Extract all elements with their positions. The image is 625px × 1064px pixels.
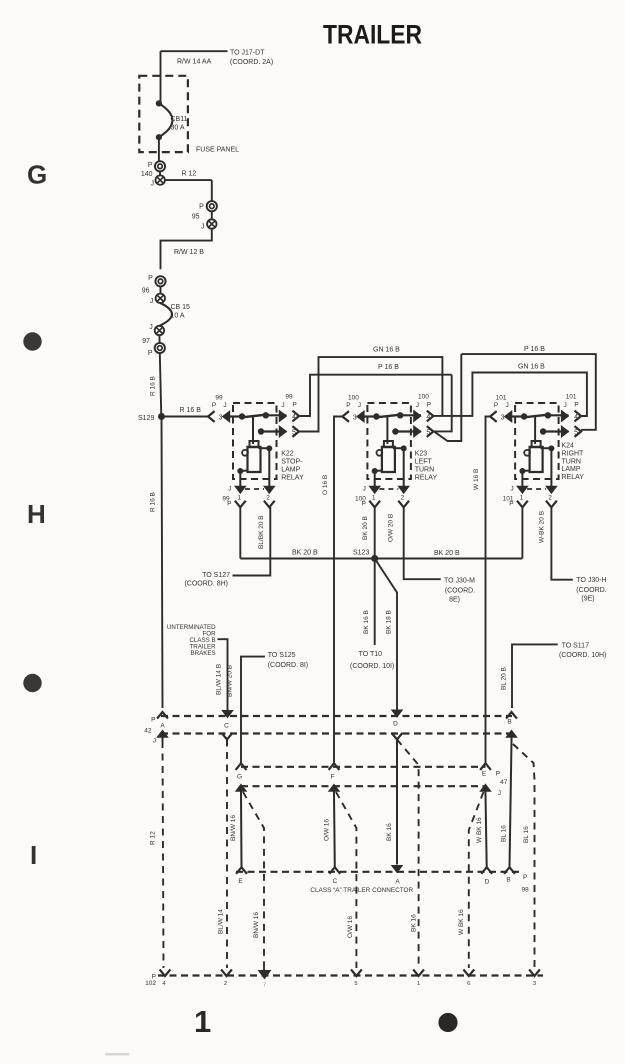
svg-text:R/W 14 AA: R/W 14 AA [177,59,212,66]
svg-text:BL/W 14: BL/W 14 [218,909,225,934]
svg-text:R 16 B: R 16 B [150,376,157,396]
svg-text:P: P [346,402,350,409]
connector 42 pin A arrow (J) [157,730,168,737]
svg-text:101: 101 [566,394,577,401]
svg-text:P: P [574,402,578,409]
relay K22 dashed case [233,403,277,479]
svg-text:J: J [510,486,513,493]
connector 101 pin 5 arrow (J) [561,426,568,437]
relay K22 coil terminal dots [259,447,270,449]
connector 47 pin F fork (P) [329,763,340,770]
relay K23 coil terminal dots [393,447,404,449]
svg-text:GN 16 B: GN 16 B [373,347,400,354]
splice S129 [158,413,165,420]
relay K24 switch contacts [521,413,527,419]
svg-text:RELAY: RELAY [562,474,585,481]
svg-text:30 A: 30 A [171,124,185,131]
svg-text:E: E [482,771,487,778]
connector 99 body dashed link [245,488,264,490]
wire BK 18 B from S123 to connector 42-D [375,559,397,711]
svg-text:2: 2 [548,495,552,502]
wire from K23 pin 1 to S123 [374,507,376,558]
svg-text:95: 95 [192,213,200,220]
connector 47 pin E fork (P) [480,763,491,770]
connector 100 pin 3 arrow (J) [357,411,364,422]
svg-text:TRAILER: TRAILER [323,20,422,50]
relay K24 coil [532,441,541,447]
svg-text:J: J [153,738,156,745]
wire W-BK 16 dashed from 47-E to 102-6 [469,792,484,968]
svg-text:1: 1 [237,495,241,502]
wire BL/BK 20 B from K22 pin 1 [239,507,241,558]
svg-text:K23: K23 [415,451,428,458]
svg-text:GN 16 B: GN 16 B [518,364,545,371]
svg-text:BL 20 B: BL 20 B [501,667,508,690]
connector 96 J half [160,287,162,294]
svg-text:R/W 12 B: R/W 12 B [174,249,204,256]
svg-text:TO J30-H: TO J30-H [576,577,606,584]
svg-text:(COORD.: (COORD. [445,587,475,594]
svg-text:J: J [149,324,153,331]
wire R 12 from 42-A to 102-4 [163,741,164,968]
relay K23 coil feed wire [386,417,388,445]
connector 102 pin 7 arrow [259,971,271,979]
connector 101 body dashed link [527,488,546,490]
connector 99 pin 4 arrow (J) [279,411,286,422]
relay K23 coil [384,441,393,447]
connector 100 pin 2 fork (P) [398,501,409,508]
wire BK 20 B to S127 [233,507,271,575]
connector 101 pin 3 arrow (J) [505,411,512,422]
wire W 16 B from K24 pin 3 [486,417,491,764]
svg-text:42: 42 [144,728,152,735]
grid marker dot [23,674,41,692]
svg-text:47: 47 [500,779,508,786]
svg-text:P: P [148,162,153,169]
svg-text:B: B [506,877,510,884]
svg-text:STOP-: STOP- [281,459,303,466]
connector 42 pin C fork (J) [222,733,233,740]
svg-text:R 12: R 12 [182,171,197,178]
class A pin A arrow [392,866,403,873]
svg-text:P: P [151,717,155,724]
connector 99 pin 5 arrow (J) [279,426,286,437]
svg-text:LAMP: LAMP [562,466,581,473]
svg-text:O/W 16: O/W 16 [347,916,354,938]
svg-text:P 16 B: P 16 B [378,364,399,371]
svg-text:F: F [331,774,335,781]
connector 101 pin 4 arrow (J) [561,411,568,422]
svg-text:BK 20 B: BK 20 B [434,550,460,557]
relay K22 pin 1 wire [239,471,241,487]
svg-text:98: 98 [522,887,530,894]
wire R/W 12 B [161,229,212,270]
svg-text:102: 102 [145,980,156,987]
svg-text:BK 20 B: BK 20 B [292,550,318,557]
wire to J17-DT [161,50,228,52]
connector 99 pin 3 fork (P) [208,411,215,422]
svg-text:BK 20 B: BK 20 B [362,516,369,540]
connector 99 pin 1 arrow (J) [235,486,246,493]
class A pin D fork [481,867,492,874]
connector 102 pin 2 fork [221,969,232,976]
wire R 16 B down to connector 42-A [162,417,163,709]
svg-text:P: P [523,874,527,881]
wire from K24 pin 1 to bus [521,507,523,558]
relay K24 switch blade [524,415,548,418]
svg-text:J: J [151,181,155,188]
svg-text:G: G [237,774,242,781]
svg-text:O 16 B: O 16 B [322,475,329,495]
svg-text:BL 16: BL 16 [523,826,530,843]
relay K22 coil feed wire [252,417,254,445]
connector 102 pin 6 fork [463,969,474,976]
svg-text:TO J30-M: TO J30-M [444,577,475,584]
svg-text:5: 5 [354,981,357,987]
svg-text:E: E [238,878,243,885]
svg-text:BL 16: BL 16 [501,825,508,842]
circuit breaker CB11 30A [156,100,162,106]
svg-text:8E): 8E) [449,597,460,604]
wire fuse panel to connector 140 [158,137,160,161]
bottom grid marker dot [438,1013,457,1032]
connector 42 pin D fork (J) [392,733,403,740]
relay K23 pin 4 wire [400,414,421,416]
connector 100 pin 3 fork (P) [342,411,349,422]
svg-text:R 12: R 12 [150,831,157,845]
svg-text:J: J [358,402,361,409]
wire R 16 B down to S129 [160,353,162,416]
svg-text:TO J17-DT: TO J17-DT [230,50,265,57]
connector 47 body dashed lines [241,766,486,768]
connector 47 pin G arrow (J) [236,784,247,791]
svg-text:96: 96 [142,288,150,295]
wire O 16 B from K23 pin 3 [334,417,342,764]
svg-text:BK 16: BK 16 [411,914,418,932]
relay K23 pin 2 wire [403,448,405,486]
svg-text:R 16 B: R 16 B [180,407,202,414]
wire O/W 16 dashed from 47-F to 102-5 [336,792,356,968]
connector 102 pin 3 fork [529,969,540,976]
svg-text:J: J [281,402,284,409]
splice S123 [371,555,378,562]
svg-text:(COORD. 2A): (COORD. 2A) [230,59,273,66]
svg-text:3: 3 [533,981,536,987]
relay K24 pin 4 wire [548,414,569,416]
class A pin C fork [329,867,340,874]
svg-text:I: I [30,840,37,870]
svg-text:100: 100 [348,395,359,402]
wire BK 16 from 42-D to class A pin A [396,745,398,865]
svg-text:BK 16: BK 16 [386,823,393,841]
svg-text:W BK 16: W BK 16 [458,909,465,935]
connector 96 P half [155,276,165,286]
connector 100 pin 5 fork (P) [427,426,434,437]
connector 42 pin D arrow (P) [392,710,403,717]
connector 101 pin 5 fork (P) [575,426,582,437]
relay K24 pin 1 wire [521,471,523,487]
connector 101 pin 3 fork (P) [490,411,497,422]
relay K22 pin 2 wire [268,448,270,486]
svg-text:TURN: TURN [415,467,434,474]
connector 100 pin 4 arrow (J) [414,411,421,422]
svg-text:P: P [292,402,296,409]
svg-text:A: A [160,723,165,730]
svg-text:R 16 B: R 16 B [150,492,157,512]
svg-text:K22: K22 [281,451,294,458]
svg-text:1: 1 [417,981,420,987]
svg-text:K24: K24 [562,443,575,450]
svg-text:(9E): (9E) [581,596,594,603]
connector 42 pin A fork (P) [157,712,168,719]
svg-text:J: J [416,402,419,409]
connector 99 pin 1 fork (P) [235,501,246,508]
connector 102 dashed body [158,974,543,976]
relay K22 switch blade [242,415,266,418]
wire BN/W 16 dashed from 47-G to 102-7 [243,792,264,966]
svg-text:TO S125: TO S125 [268,652,296,659]
svg-text:S129: S129 [138,415,154,422]
svg-text:P: P [227,501,231,508]
svg-text:BL/BK 20 B: BL/BK 20 B [258,515,265,549]
svg-text:CLASS “A” TRAILER CONNECTOR: CLASS “A” TRAILER CONNECTOR [310,887,413,894]
svg-text:C: C [224,723,229,730]
svg-text:CB 15: CB 15 [171,304,191,311]
svg-text:(COORD. 8I): (COORD. 8I) [268,662,308,669]
wire BL 16 from 42-B to class A pin B [510,741,512,867]
svg-text:C: C [332,878,337,885]
svg-text:D: D [485,879,490,886]
connector 42 body dashed lines [161,715,512,717]
svg-text:BK 18 B: BK 18 B [386,610,393,634]
svg-text:LEFT: LEFT [415,459,433,466]
wire BL 16 dashed from 42-B to 102-3 [513,744,535,968]
svg-text:99: 99 [285,394,293,401]
svg-text:P: P [148,275,153,282]
wire O/W 20 B from K23 pin 2 to J30-M [404,507,441,579]
svg-text:B: B [507,719,511,726]
svg-text:(COORD. 8H): (COORD. 8H) [184,581,228,588]
connector 102 pin 1 fork [413,969,424,976]
svg-text:W 16 B: W 16 B [473,469,480,490]
svg-text:FUSE PANEL: FUSE PANEL [196,146,239,153]
svg-text:6: 6 [467,981,470,987]
fuse panel dashed box [139,76,188,152]
connector 140 J half [159,172,161,176]
connector 101 pin 2 arrow (J) [546,486,557,493]
relay K24 pin 2 wire [550,448,552,486]
svg-text:J: J [201,223,205,230]
svg-text:1: 1 [520,495,524,502]
connector 101 pin 1 arrow (J) [517,486,528,493]
svg-text:1: 1 [194,1004,211,1039]
svg-text:BRAKES: BRAKES [190,650,215,657]
svg-text:(COORD.: (COORD. [576,587,606,594]
wire BL 20 B from S117 stub [512,644,558,708]
svg-text:TO S127: TO S127 [202,572,230,579]
svg-text:BK 16 B: BK 16 B [363,610,370,634]
relay K24 coil feed wire [534,417,536,445]
svg-text:W BK 16: W BK 16 [476,817,483,843]
connector 97 J half [155,326,164,335]
svg-text:TO S117: TO S117 [562,642,589,649]
svg-text:7: 7 [263,983,266,989]
svg-text:10 A: 10 A [171,312,185,319]
svg-text:1: 1 [372,495,376,502]
connector 102 pin 5 fork [351,969,362,976]
connector 100 pin 4 fork (P) [427,411,434,422]
svg-text:J: J [505,402,508,409]
connector 100 pin 1 fork (P) [369,501,380,508]
unterminated wire arrow at connector 42-C [222,711,233,718]
svg-text:3: 3 [353,415,357,422]
connector 95 J half [211,212,213,220]
connector 100 pin 2 arrow (J) [398,486,409,493]
ground bus BK 20 B [240,558,522,560]
svg-text:140: 140 [141,171,153,178]
connector 42 pin B fork (P) [506,712,517,719]
svg-text:97: 97 [142,338,150,345]
svg-text:P: P [148,350,153,357]
svg-text:J: J [363,486,366,493]
wire W-BK 20 B from K24 pin 2 to J30-H [551,507,572,579]
relay K22 pin 4 wire [266,414,287,416]
connector 47 pin G fork (P) [236,763,247,770]
relay K24 pin 5 contact [540,428,546,434]
svg-text:BN/W 16: BN/W 16 [230,815,237,841]
connector 99 pin 5 fork (P) [292,426,299,437]
relay K24 dashed case [515,403,559,479]
svg-text:O/W 20 B: O/W 20 B [388,514,395,542]
connector 101 pin 2 fork (P) [546,501,557,508]
connector 99 pin 4 fork (P) [292,411,299,422]
wire R 16 B to relay K22 pin 3 [162,416,209,418]
relay K22 pin 5 contact [258,428,264,434]
svg-text:J: J [223,402,226,409]
class A trailer connector dashed body [236,871,520,873]
svg-text:TURN: TURN [562,458,581,465]
svg-text:P: P [199,203,204,210]
svg-text:(COORD. 10I): (COORD. 10I) [350,663,394,670]
svg-text:101: 101 [496,395,507,402]
svg-text:W-BK 20 B: W-BK 20 B [539,511,546,543]
connector 97 P half [158,335,160,343]
svg-text:O/W 16: O/W 16 [324,819,331,841]
class A pin B fork [504,867,515,874]
svg-text:S123: S123 [353,550,369,557]
svg-text:P: P [509,501,513,508]
svg-text:3: 3 [219,415,223,422]
svg-text:2: 2 [224,981,227,987]
relay K24 coil terminal dots [541,447,552,449]
wire O/W 16 from 47-F to class A pin C [333,794,336,867]
wire BK 16 dashed from 42-D to 102-1 [397,740,419,969]
connector 100 body dashed link [379,488,398,490]
svg-text:LAMP: LAMP [281,467,300,474]
connector 99 pin 2 fork (P) [264,501,275,508]
wire BL/W 14 from 42-C to 102-2 [226,740,228,969]
svg-text:4: 4 [162,981,166,987]
svg-text:CB11: CB11 [171,116,188,123]
wire BN/W 20 B from S125 stub [241,657,265,764]
svg-text:RIGHT: RIGHT [562,450,585,457]
connector 99 pin 2 arrow (J) [264,486,275,493]
svg-text:BN/W 16: BN/W 16 [253,912,260,938]
svg-text:J: J [563,402,566,409]
svg-text:BL/W 14 B: BL/W 14 B [216,664,223,695]
svg-text:100: 100 [418,394,429,401]
connector 95 P half [207,201,217,211]
svg-text:(COORD. 10H): (COORD. 10H) [559,652,606,659]
svg-text:J: J [150,298,154,305]
svg-text:99: 99 [215,395,223,402]
wire GN 16 B right segment [433,373,587,417]
connector 101 pin 4 fork (P) [575,411,582,422]
svg-text:P 16 B: P 16 B [524,346,545,353]
connector 102 pin 4 fork [160,969,171,976]
relay K23 switch blade [376,415,400,418]
connector 100 pin 1 arrow (J) [369,486,380,493]
relay K23 switch contacts [373,413,379,419]
connector 101 pin 1 fork (P) [517,501,528,508]
wire W-BK 16 from 47-E to class A pin D [486,794,487,867]
svg-text:J: J [498,790,501,797]
connector 100 pin 5 arrow (J) [414,426,421,437]
svg-text:P: P [427,402,431,409]
grid marker dot [23,332,41,350]
connector 47 pin E arrow (J) [480,784,491,791]
wire BK 16 B from S123 to T10 [374,559,376,646]
class A pin E fork [236,867,247,874]
svg-text:RELAY: RELAY [415,474,438,481]
svg-text:A: A [395,879,400,886]
svg-text:P: P [362,501,366,508]
svg-text:H: H [27,499,46,529]
wire BL/W 14 B unterminated [218,639,228,710]
wire P 16 B right segment [433,375,451,432]
svg-text:D: D [393,721,398,728]
wire BN/W 16 from 47-G to class A pin E [240,794,243,867]
svg-text:G: G [27,160,47,190]
svg-text:P: P [494,402,498,409]
connector 140 P half [155,161,165,171]
svg-text:BN/W 20 B: BN/W 20 B [227,665,234,697]
relay K22 switch contacts [239,413,245,419]
connector 99 pin 3 arrow (J) [223,411,230,422]
svg-text:TO T10: TO T10 [359,651,383,658]
wire P 16 B left segment [299,375,452,416]
svg-text:3: 3 [501,415,505,422]
connector 42 pin B arrow (J) [506,730,517,737]
svg-text:2: 2 [401,495,405,502]
wire GN 16 B left segment [299,357,442,431]
connector 47 pin F arrow (J) [329,784,340,791]
relay K23 pin 5 contact [392,428,398,434]
faint page smudge [105,1053,129,1056]
wire R 12 [165,179,212,181]
circuit breaker CB15 10A [160,303,172,326]
relay K22 coil [250,441,259,447]
relay K23 pin 1 wire [374,471,376,487]
svg-text:P: P [496,771,500,778]
svg-text:P: P [212,402,216,409]
svg-text:RELAY: RELAY [281,474,304,481]
svg-text:2: 2 [266,495,270,502]
relay K23 dashed case [367,403,411,479]
svg-text:J: J [228,486,231,493]
